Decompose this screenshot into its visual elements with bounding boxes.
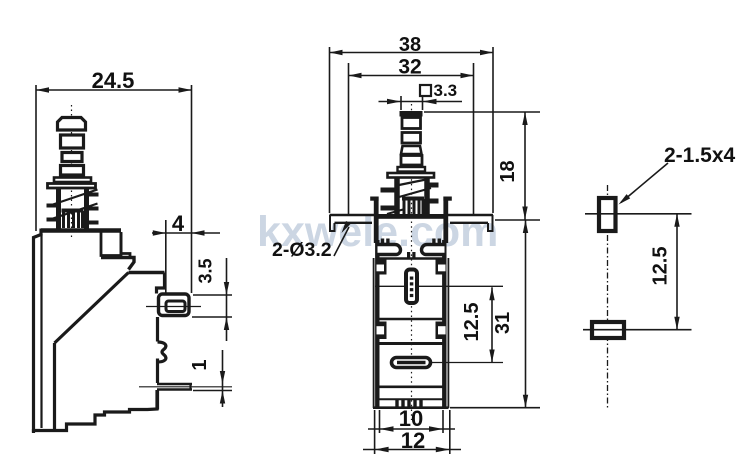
svg-text:24.5: 24.5 [92, 68, 135, 93]
pin centerline [139, 386, 232, 388]
big diagonal [55, 273, 129, 344]
plunger cap [58, 118, 86, 131]
dim 12.5 right [676, 214, 678, 330]
top slot centerline [585, 213, 692, 215]
dim 4 [152, 220, 220, 293]
bracket bent tab left [374, 197, 379, 244]
lower slot [392, 358, 431, 368]
dim 24.5 ext line right [191, 85, 193, 293]
ext line upper slot [375, 285, 503, 287]
spring coil diagonal 2 [47, 204, 98, 221]
bracket wing right top line [447, 214, 493, 217]
spring right post [84, 188, 89, 229]
stem step collar [398, 167, 426, 172]
right edge below tab to notch [156, 317, 159, 342]
spring tick right 2 [85, 207, 99, 211]
svg-text:2-1.5x4: 2-1.5x4 [664, 144, 736, 167]
comb line [379, 398, 443, 400]
side rib left [373, 258, 375, 408]
spring tick left 2 [47, 218, 61, 222]
stem segment A [402, 118, 421, 129]
top-left step [34, 229, 42, 434]
bottom and staircase [34, 390, 158, 431]
svg-text:4: 4 [172, 211, 185, 236]
spring posts [394, 178, 400, 216]
notch bump [158, 342, 166, 362]
hatched block [62, 209, 84, 213]
inner bottom line [379, 385, 443, 388]
stem segment D [401, 156, 422, 166]
body top bar [41, 228, 121, 233]
lower left vertical [53, 343, 56, 429]
body bottom edge [373, 406, 449, 409]
mounting tab [159, 294, 190, 316]
right edge pin to bottom [156, 390, 159, 410]
bracket bent tab right [443, 197, 448, 244]
dim 32 [349, 63, 474, 215]
comb teeth [395, 400, 422, 407]
svg-text:32: 32 [398, 56, 421, 79]
inner left wall [40, 234, 42, 428]
tab centerline [146, 306, 201, 308]
svg-text:12.5: 12.5 [650, 247, 672, 286]
ledge 2 [129, 271, 165, 274]
raised block rear [101, 233, 121, 256]
svg-text:12.5: 12.5 [461, 303, 483, 342]
body left edge [375, 240, 379, 408]
flange washer [48, 184, 96, 189]
dim square 3.3 [420, 85, 431, 96]
spring tick left 1 [47, 204, 61, 208]
svg-text:38: 38 [399, 34, 421, 56]
body right edge [442, 240, 446, 408]
hook wall left [379, 260, 387, 275]
bracket wing right bottom line [450, 222, 488, 224]
svg-text:31: 31 [492, 312, 514, 334]
collar [54, 178, 91, 183]
vertical dashed centerline [607, 185, 609, 410]
svg-text:3.5: 3.5 [196, 258, 216, 283]
dim 12.5 middle [491, 287, 493, 362]
body outline main [34, 229, 166, 434]
hook wall right [436, 260, 444, 275]
band line [378, 342, 444, 345]
bottom slot centerline [583, 329, 692, 331]
hatch block middle [402, 197, 424, 201]
washer [388, 173, 435, 178]
dim 3.5 [192, 258, 232, 341]
dim 1 [193, 350, 232, 407]
bracket lip left [330, 215, 335, 231]
plunger segment 2 [61, 135, 84, 148]
plate band behind tabs [375, 214, 447, 219]
tab hole [166, 301, 185, 312]
bracket wing left bottom line [335, 222, 373, 224]
dim 38 [330, 47, 494, 213]
svg-text:1: 1 [189, 359, 211, 370]
dim 24.5 line [36, 89, 192, 91]
stem segment B [402, 133, 421, 144]
separator line [378, 257, 444, 259]
spring coil diagonal 1 [47, 190, 98, 207]
ledge 1 [101, 258, 134, 270]
dim 10 [368, 410, 455, 433]
button cap black [400, 111, 423, 117]
bracket lip right [488, 215, 493, 231]
spring ticks [381, 188, 400, 193]
svg-text:2-Ø3.2: 2-Ø3.2 [272, 239, 332, 261]
mid hook right [436, 322, 444, 340]
bracket wing left top line [330, 214, 376, 217]
right edge notch to pin [156, 359, 159, 384]
bottom slot [592, 322, 624, 338]
latch left [378, 245, 401, 255]
plunger segment 4 [61, 166, 84, 176]
dim 24.5 ext line left [35, 85, 37, 231]
spring tick right 3 [85, 221, 99, 225]
side rib right [447, 258, 449, 408]
center catch between latches [407, 252, 410, 259]
center line [411, 104, 413, 420]
top slot [599, 198, 616, 231]
terminal pin side [139, 383, 232, 391]
upper band line [379, 318, 443, 321]
spring diagonals [399, 180, 426, 186]
slot serrations [410, 277, 414, 298]
dim 18 [424, 112, 540, 220]
svg-text:18: 18 [497, 160, 519, 182]
spring tick right 1 [85, 193, 99, 197]
upper slot [406, 270, 417, 304]
plunger segment 3 [62, 153, 82, 162]
mid hook left [379, 322, 387, 340]
stem segment C [401, 146, 422, 154]
dim 24.5 arrows [36, 87, 49, 92]
svg-text:12: 12 [401, 428, 425, 453]
dim 12 [363, 410, 461, 454]
block right edge [121, 232, 130, 258]
latch right [422, 245, 445, 255]
leader 2-1.5x4 [621, 163, 668, 203]
right edge upper [157, 273, 165, 294]
svg-text:3.3: 3.3 [434, 81, 458, 100]
dim 2-phi3.2 leader [334, 227, 349, 256]
dim 31 [450, 220, 540, 408]
spring left post [56, 188, 61, 229]
ext line lower slot [432, 362, 503, 364]
plunger centerline [71, 105, 73, 240]
